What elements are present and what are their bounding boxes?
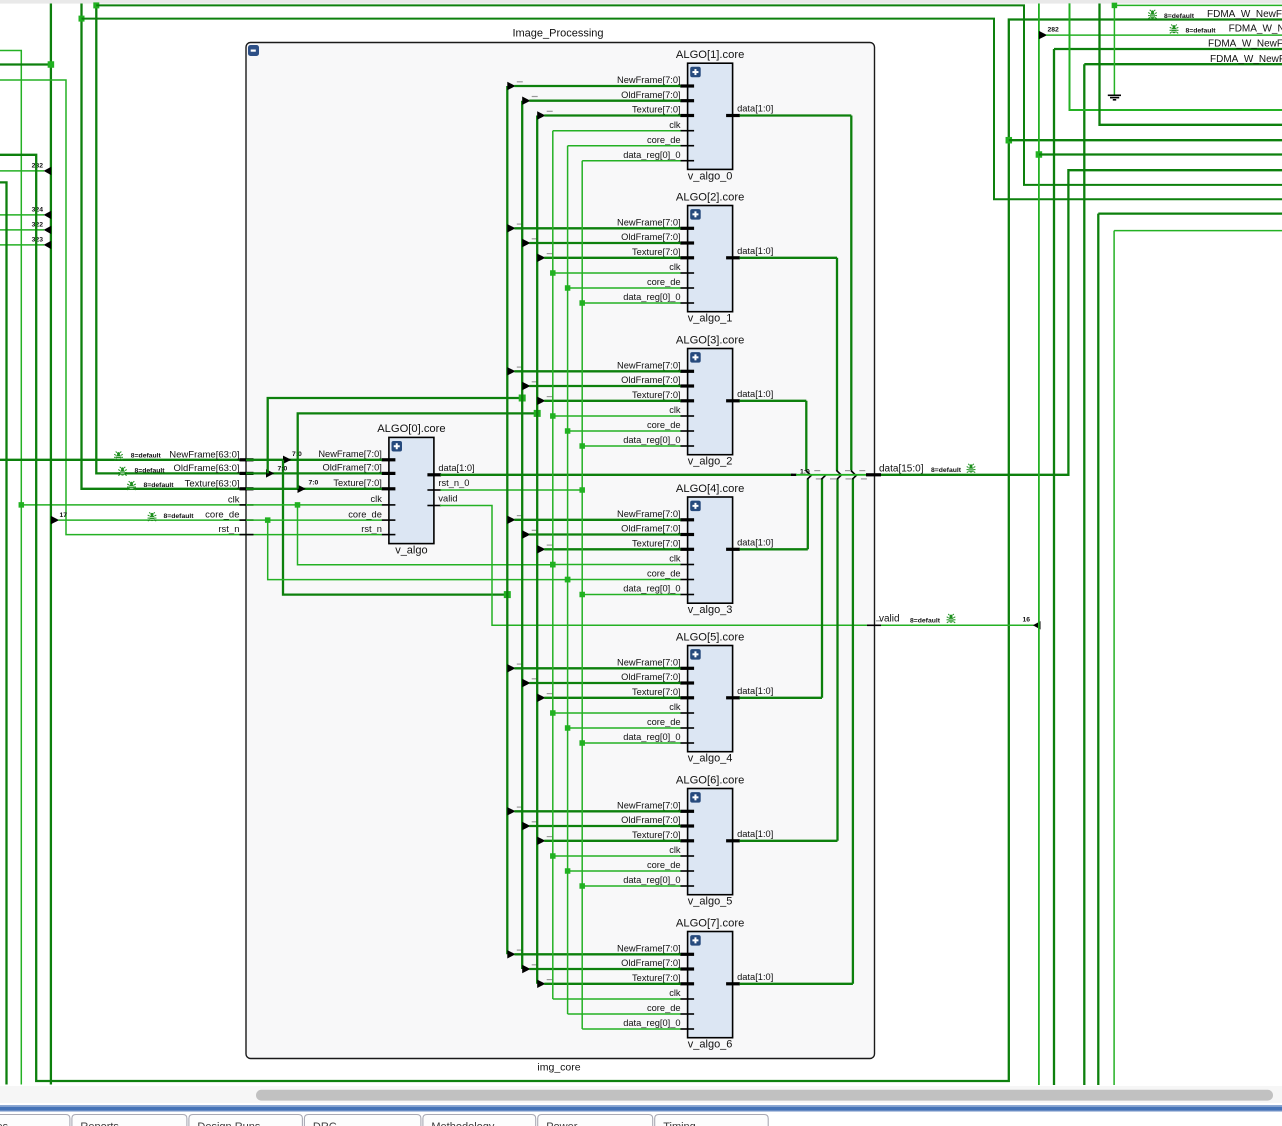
wire vertical x1099.5, row y125 (1100, 4, 1282, 125)
wire data_reg row to v_algo_4 (582, 742, 680, 744)
svg-text:v_algo_1: v_algo_1 (688, 313, 733, 325)
svg-text:rst_n: rst_n (218, 524, 239, 535)
svg-text:NewFrame[7:0]: NewFrame[7:0] (318, 449, 382, 459)
wire OldFrame row to v_algo_5 (529, 825, 680, 827)
svg-text:17: 17 (60, 512, 68, 519)
wire OldFrame[63:0] (vertical x96, row y472) (96, 4, 246, 474)
svg-text:NewFrame[7:0]: NewFrame[7:0] (617, 509, 681, 519)
mark_debug bug icon (114, 452, 123, 461)
wire branch y18.6 right, down x994, row y199 (82, 19, 1282, 200)
arrow NewFrame into ALGO[7] (507, 950, 515, 958)
wire bright vertical x1114 lower (1113, 231, 1115, 1085)
pin stub v_algo_1.core_de (680, 287, 694, 289)
junction clk riser (295, 502, 301, 508)
junction core_de row ALGO[4] (565, 577, 571, 583)
arrow NewFrame into ALGO[5] (507, 664, 515, 672)
arrow OldFrame into ALGO[6] (522, 822, 530, 830)
tick mark (532, 96, 538, 98)
wire data_reg row to v_algo_2 (582, 445, 680, 447)
junction core_de row ALGO[5] (565, 725, 571, 731)
svg-text:data_reg[0]_0: data_reg[0]_0 (623, 875, 680, 885)
wire Texture row to v_algo_4 (544, 697, 680, 699)
wire ground net vertical (1113, 5, 1115, 94)
wire vertical x1039 (net 282/16) (1038, 4, 1040, 1086)
svg-text:Texture[7:0]: Texture[7:0] (632, 390, 681, 400)
svg-text:Texture[7:0]: Texture[7:0] (632, 830, 681, 840)
tab DRC (304, 1115, 421, 1126)
junction clk row ALGO[6] (550, 853, 556, 859)
svg-text:NewFrame[7:0]: NewFrame[7:0] (617, 218, 681, 228)
svg-text:data[15:0]: data[15:0] (879, 463, 924, 474)
tick mark (532, 964, 538, 966)
arrow Texture into ALGO[1] (537, 111, 545, 119)
wire OldFrame slice riser up x268, feed y398 (268, 398, 523, 473)
svg-text:data_reg[0]_0: data_reg[0]_0 (623, 1018, 680, 1028)
svg-text:data_reg[0]_0: data_reg[0]_0 (623, 584, 680, 594)
wire Texture row to v_algo_3 (544, 548, 680, 550)
junction x81/y18.6 (79, 16, 85, 22)
wire clk row to v_algo (246, 504, 382, 506)
wire Texture row to v_algo_2 (544, 400, 680, 402)
arrow NewFrame into ALGO[4] (507, 516, 515, 524)
tick mark (517, 949, 523, 951)
svg-text:v_algo_3: v_algo_3 (688, 604, 733, 616)
svg-text:7:0: 7:0 (278, 466, 288, 473)
svg-text:FDMA_W_NewFrame: FDMA_W_NewFrame (1229, 24, 1282, 35)
wire core_de row to v_algo (246, 519, 382, 521)
tick mark (547, 110, 553, 112)
blue divider bar (0, 1105, 1282, 1107)
svg-text:core_de: core_de (647, 717, 681, 727)
pin stub v_algo_4.OldFrame[7:0] (680, 681, 694, 684)
wire branch top y5.4 right, down x1024, row y185 (96, 5, 1282, 185)
wire NewFrame row to v_algo_0 (514, 85, 680, 87)
svg-text:core_de: core_de (647, 277, 681, 287)
wire data[1:0] from v_algo_2 (740, 400, 807, 402)
wire OldFrame row to v_algo_0 (529, 100, 680, 102)
pin stub v_algo_0.OldFrame[7:0] (680, 99, 694, 102)
svg-text:Texture[63:0]: Texture[63:0] (185, 478, 240, 489)
wire row y213.6 (1098, 212, 1282, 214)
wire channel vertical core_de x567.6 (567, 146, 569, 1014)
tick mark (547, 979, 553, 981)
svg-text:data[1:0]: data[1:0] (737, 686, 773, 696)
junction OldFrame feed / channel x522 (519, 395, 526, 402)
wire FDMA row3 (1054, 48, 1282, 50)
ripper tick below (816, 478, 822, 480)
svg-text:Timing: Timing (663, 1121, 696, 1126)
wire Texture row to v_algo_1 (544, 257, 680, 259)
svg-text:ALGO[5].core: ALGO[5].core (676, 631, 744, 643)
svg-text:clk: clk (669, 702, 681, 712)
bus ripper join x807.8 (from below) (807, 475, 812, 480)
wire channel vertical OldFrame x522.2 (521, 101, 523, 969)
svg-text:OldFrame[7:0]: OldFrame[7:0] (621, 375, 680, 385)
pin stub v_algo.clk (382, 504, 396, 506)
wire data vertical x837.5 up (836, 479, 838, 841)
pin stub v_algo_5.core_de (680, 870, 694, 872)
svg-text:v_algo_2: v_algo_2 (688, 456, 733, 468)
svg-text:clk: clk (669, 554, 681, 564)
wire core_de row to v_algo_3 (568, 579, 681, 581)
svg-text:clk: clk (669, 845, 681, 855)
wire core_de row to v_algo_6 (568, 1013, 681, 1015)
svg-text:core_de: core_de (647, 1003, 681, 1013)
bus ripper arrow NewFrame 7:0 (283, 456, 291, 464)
svg-text:core_de: core_de (647, 569, 681, 579)
wire rst_n_0 out to channel x582 (440, 489, 582, 491)
pin stub v_algo_0.core_de (680, 145, 694, 147)
pin stub v_algo_3.data[1:0] (726, 548, 740, 551)
wire vertical trunk x51 (50, 4, 52, 1085)
svg-text:OldFrame[7:0]: OldFrame[7:0] (621, 90, 680, 100)
svg-text:282: 282 (1048, 26, 1060, 33)
wire data[1:0] from v_algo_1 (740, 257, 837, 259)
svg-text:Design Runs: Design Runs (197, 1121, 260, 1126)
junction data_reg row ALGO[3] (579, 443, 585, 449)
arrow OldFrame into ALGO[5] (522, 679, 530, 687)
pin stub v_algo_3.data_reg[0]_0 (680, 594, 694, 596)
wire data_reg row to v_algo_3 (582, 594, 680, 596)
wire channel vertical NewFrame x507.3 (506, 86, 508, 954)
tick mark (517, 81, 523, 83)
arrow OldFrame into ALGO[4] (522, 530, 530, 538)
ripper tick below (861, 478, 867, 480)
svg-text:8=default: 8=default (164, 513, 195, 520)
pin stub v_algo.Texture[7:0] (382, 487, 396, 490)
pin stub v_algo.rst_n_0 (427, 489, 441, 491)
pin stub v_algo.OldFrame[7:0] (382, 472, 396, 475)
svg-text:OldFrame[7:0]: OldFrame[7:0] (621, 672, 680, 682)
svg-text:core_de: core_de (205, 510, 239, 521)
svg-text:data[1:0]: data[1:0] (737, 104, 773, 114)
tick mark (547, 253, 553, 255)
wire Texture row to v_algo_5 (544, 840, 680, 842)
svg-text:324: 324 (32, 207, 44, 214)
wire feed y64 from left edge (0, 63, 51, 65)
tick mark (532, 238, 538, 240)
wire clk row to v_algo_3 (553, 564, 681, 566)
svg-text:core_de: core_de (647, 135, 681, 145)
svg-text:NewFrame[7:0]: NewFrame[7:0] (617, 658, 681, 668)
arrow NewFrame into ALGO[6] (507, 807, 515, 815)
junction clk feed / channel x553 (550, 562, 556, 568)
tick mark (517, 515, 523, 517)
pin stub v_algo_1.data_reg[0]_0 (680, 302, 694, 304)
svg-text:v_algo_5: v_algo_5 (688, 896, 733, 908)
junction core_de feed / channel x568 (565, 577, 571, 583)
port stub data[15:0] through right border (866, 473, 881, 476)
junction core_de row ALGO[2] (565, 285, 571, 291)
svg-text:FDMA_W_NewFrame: FDMA_W_NewFrame (1208, 39, 1282, 50)
wire NewFrame[7:0] row to v_algo (246, 459, 382, 461)
svg-text:data_reg[0]_0: data_reg[0]_0 (623, 435, 680, 445)
wire core_de row to v_algo_1 (568, 287, 681, 289)
svg-text:core_de: core_de (348, 509, 382, 519)
bus merge jog 1:0 (791, 474, 797, 476)
arrow net 282 source (1039, 31, 1047, 39)
svg-text:DRC: DRC (313, 1121, 337, 1126)
bus ripper join x852.9 (from below) (852, 475, 857, 480)
svg-text:clk: clk (371, 494, 383, 504)
svg-text:v_algo_6: v_algo_6 (688, 1039, 733, 1051)
tab Reports (72, 1115, 187, 1126)
svg-text:Texture[7:0]: Texture[7:0] (333, 478, 382, 488)
wire core_de riser down x268, feed y579.6 (268, 520, 568, 580)
svg-text:data[1:0]: data[1:0] (737, 246, 773, 256)
svg-text:8=default: 8=default (1186, 28, 1217, 35)
svg-text:OldFrame[63:0]: OldFrame[63:0] (174, 463, 240, 474)
pin stub v_algo_6.OldFrame[7:0] (680, 967, 694, 970)
arrow NewFrame into ALGO[1] (507, 82, 515, 90)
pin stub v_algo_5.data_reg[0]_0 (680, 885, 694, 887)
wire data[15:0] bus (inside) (796, 474, 866, 476)
pin stub v_algo_1.OldFrame[7:0] (680, 241, 694, 244)
svg-text:core_de: core_de (647, 860, 681, 870)
wire clk row to v_algo_5 (553, 855, 681, 857)
svg-text:core_de: core_de (647, 420, 681, 430)
pin stub v_algo_0.NewFrame[7:0] (680, 84, 694, 87)
arrow endpoint net 322 (44, 226, 52, 234)
svg-text:data[1:0]: data[1:0] (737, 537, 773, 547)
junction data_reg row ALGO[2] (579, 300, 585, 306)
ripper tick below (830, 478, 836, 480)
svg-text:282: 282 (32, 163, 44, 170)
pin stub v_algo_2.OldFrame[7:0] (680, 384, 694, 387)
svg-text:ALGO[6].core: ALGO[6].core (676, 774, 744, 786)
pin stub v_algo_6.data[1:0] (726, 982, 740, 985)
pin stub v_algo_6.clk (680, 998, 694, 1000)
svg-text:NewFrame[7:0]: NewFrame[7:0] (617, 75, 681, 85)
svg-text:NewFrame[63:0]: NewFrame[63:0] (169, 449, 239, 460)
wire data vertical x837.0 down (836, 258, 838, 471)
svg-text:data_reg[0]_0: data_reg[0]_0 (623, 732, 680, 742)
wire core_de row into container (58, 519, 246, 521)
port stub through container border (240, 487, 254, 490)
svg-text:clk: clk (669, 120, 681, 130)
wire clk row to v_algo_4 (553, 712, 681, 714)
wire bright vertical x1069.5, row y110 (1070, 3, 1282, 110)
arrow valid endpoint net 16 (1033, 621, 1041, 629)
arrow OldFrame into ALGO[7] (522, 965, 530, 973)
port stub valid through right border (867, 624, 881, 626)
pin stub v_algo_3.OldFrame[7:0] (680, 533, 694, 536)
junction x96/y5.4 (93, 2, 99, 8)
svg-text:data[1:0]: data[1:0] (737, 389, 773, 399)
tick mark (547, 836, 553, 838)
wire data_reg row to v_algo_0 (582, 160, 680, 162)
tab Design Runs (189, 1115, 303, 1126)
pin stub v_algo_2.Texture[7:0] (680, 399, 694, 402)
wire NewFrame[63:0] row (0, 459, 246, 461)
wire channel vertical Texture x537.2 (536, 116, 538, 984)
pin stub v_algo_4.data_reg[0]_0 (680, 742, 694, 744)
tick mark (532, 821, 538, 823)
svg-text:16: 16 (1022, 616, 1030, 623)
wire tap to net 282 (0, 170, 44, 172)
bus ripper join x837.0 (from above) (836, 470, 841, 475)
bus ripper arrow OldFrame 7:0 (266, 469, 274, 477)
wire NewFrame row to v_algo_1 (514, 227, 680, 229)
svg-text:v_algo_0: v_algo_0 (688, 170, 733, 182)
pin stub v_algo_4.NewFrame[7:0] (680, 667, 694, 670)
svg-text:rst_n: rst_n (361, 524, 382, 534)
pin stub v_algo_3.Texture[7:0] (680, 548, 694, 551)
pin stub v_algo_0.data[1:0] (726, 114, 740, 117)
pin stub v_algo_1.data[1:0] (726, 256, 740, 259)
pin stub v_algo.valid (427, 505, 441, 507)
ripper tick above (859, 470, 865, 472)
mark_debug bug icon (947, 614, 956, 623)
svg-text:8=default: 8=default (910, 617, 941, 624)
wire OldFrame row to v_algo_2 (529, 385, 680, 387)
wire core_de row to v_algo_2 (568, 430, 681, 432)
svg-text:rst_n_0: rst_n_0 (438, 478, 469, 488)
wire NewFrame row to v_algo_2 (514, 370, 680, 372)
pin stub v_algo_2.data_reg[0]_0 (680, 445, 694, 447)
pin stub v_algo_0.Texture[7:0] (680, 114, 694, 117)
wire OldFrame row to v_algo_3 (529, 533, 680, 535)
tab Methodology (423, 1115, 536, 1126)
pin stub v_algo_5.data[1:0] (726, 839, 740, 842)
tick mark (547, 544, 553, 546)
pin stub v_algo_1.Texture[7:0] (680, 256, 694, 259)
wire data[1:0] from v_algo_5 (740, 840, 838, 842)
pin stub v_algo_6.data_reg[0]_0 (680, 1028, 694, 1030)
ground symbol (1108, 95, 1121, 100)
junction data_reg row ALGO[6] (579, 883, 585, 889)
wire data_reg row to v_algo_5 (582, 885, 680, 887)
wire corner y182 down x7 (0, 182, 7, 1084)
mark_debug bug icon (1170, 25, 1179, 34)
svg-text:data[1:0]: data[1:0] (438, 463, 474, 473)
pin stub v_algo_3.NewFrame[7:0] (680, 518, 694, 521)
wire data vertical x822.0 up (821, 479, 823, 698)
wire data[1:0] from v_algo_4 (740, 697, 822, 699)
svg-text:Texture[7:0]: Texture[7:0] (632, 247, 681, 257)
svg-text:8=default: 8=default (931, 467, 962, 474)
svg-text:clk: clk (669, 262, 681, 272)
wire data[1:0] from v_algo_6 (740, 983, 853, 985)
tick mark (532, 529, 538, 531)
wire clk source (left edge to vertical x21) (0, 51, 21, 1085)
svg-text:data[1:0]: data[1:0] (737, 829, 773, 839)
wire data vertical x851.3 down (850, 116, 852, 471)
tick mark (517, 806, 523, 808)
wire core_de row to v_algo_4 (568, 727, 681, 729)
wire data_reg row to v_algo_6 (582, 1028, 680, 1030)
pin stub v_algo_5.NewFrame[7:0] (680, 810, 694, 813)
collapse button [-] (248, 45, 259, 56)
tick mark (532, 678, 538, 680)
wire FDMA row2 (thin) (1046, 34, 1282, 36)
svg-text:ALGO[0].core: ALGO[0].core (377, 423, 445, 435)
wire branch row y140 (1009, 139, 1282, 141)
wire OldFrame row to v_algo_4 (529, 682, 680, 684)
wire channel vertical data_reg x582.2 (581, 161, 583, 1029)
svg-text:data_reg[0]_0: data_reg[0]_0 (623, 292, 680, 302)
svg-text:8=default: 8=default (144, 482, 175, 489)
bus ripper arrow Texture 7:0 (298, 485, 306, 493)
wire core_de row to v_algo_5 (568, 870, 681, 872)
tab Power (538, 1115, 653, 1126)
bus ripper join x806.3 (from above) (806, 470, 811, 475)
tick mark (532, 381, 538, 383)
svg-text:Methodology: Methodology (431, 1121, 494, 1126)
pin stub v_algo_5.OldFrame[7:0] (680, 824, 694, 827)
tick mark (547, 693, 553, 695)
svg-text:v_algo: v_algo (395, 545, 427, 557)
junction clk row ALGO[4] (550, 562, 556, 568)
svg-text:Image_Processing: Image_Processing (512, 28, 603, 40)
pin stub v_algo_1.NewFrame[7:0] (680, 227, 694, 230)
horizontal scrollbar (0, 1086, 1282, 1103)
tab Messages (0, 1115, 70, 1126)
pin stub v_algo_5.Texture[7:0] (680, 839, 694, 842)
pin stub v_algo_3.clk (680, 564, 694, 566)
svg-text:Texture[7:0]: Texture[7:0] (632, 539, 681, 549)
svg-text:8=default: 8=default (1164, 13, 1195, 20)
svg-text:Texture[7:0]: Texture[7:0] (632, 105, 681, 115)
tick mark (876, 620, 882, 622)
pin stub v_algo_4.data[1:0] (726, 696, 740, 699)
wire data[15:0] bus outside (up x1068, row y170) (881, 170, 1282, 475)
wire data vertical x807.8 up (807, 479, 809, 549)
pin stub v_algo.rst_n (382, 534, 396, 536)
junction x1009/y140 (1006, 137, 1013, 144)
tick mark (517, 223, 523, 225)
junction core_de row ALGO[3] (565, 428, 571, 434)
wire NewFrame row to v_algo_4 (514, 667, 680, 669)
wire Texture[7:0] row to v_algo (246, 488, 382, 490)
mark_debug bug icon (127, 481, 136, 490)
wire clk row to v_algo_0 (553, 130, 681, 132)
arrow OldFrame into ALGO[1] (522, 97, 530, 105)
bus ripper join x822.0 (from below) (821, 475, 826, 480)
svg-text:Messages: Messages (0, 1121, 9, 1126)
wire data[1:0] from v_algo_3 (740, 548, 808, 550)
svg-text:NewFrame[7:0]: NewFrame[7:0] (617, 361, 681, 371)
pin stub v_algo_2.NewFrame[7:0] (680, 370, 694, 373)
junction rst_n_0 / data_reg channel (579, 487, 585, 493)
pin stub v_algo_4.clk (680, 712, 694, 714)
pin stub v_algo_6.core_de (680, 1013, 694, 1015)
tick mark (547, 396, 553, 398)
arrow endpoint net 324 (44, 211, 52, 219)
svg-text:Texture[7:0]: Texture[7:0] (632, 687, 681, 697)
pin stub v_algo_3.core_de (680, 579, 694, 581)
pin stub v_algo_6.Texture[7:0] (680, 982, 694, 985)
arrow Texture into ALGO[3] (537, 397, 545, 405)
svg-text:322: 322 (32, 222, 44, 229)
svg-text:Power: Power (546, 1121, 578, 1126)
wire clk row to v_algo_1 (553, 272, 681, 274)
pin stub v_algo_4.Texture[7:0] (680, 696, 694, 699)
junction data_reg row ALGO[4] (579, 592, 585, 598)
port stub through container border (240, 472, 254, 475)
svg-text:data_reg[0]_0: data_reg[0]_0 (623, 150, 680, 160)
mark_debug bug icon (1148, 10, 1157, 19)
wire branch row y154 (1039, 153, 1282, 155)
arrow Texture into ALGO[4] (537, 545, 545, 553)
svg-text:valid: valid (879, 614, 900, 625)
junction x1039/y154 (1036, 151, 1043, 158)
svg-text:ALGO[7].core: ALGO[7].core (676, 917, 744, 929)
svg-text:clk: clk (228, 494, 240, 505)
svg-text:NewFrame[7:0]: NewFrame[7:0] (617, 944, 681, 954)
wire data[1:0] from v_algo_0 (740, 114, 852, 116)
wire core_de row to v_algo_0 (568, 145, 681, 147)
